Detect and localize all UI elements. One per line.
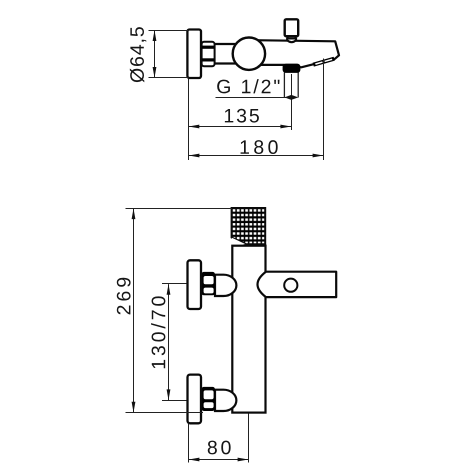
tick bottom	[149, 77, 189, 79]
extension line flange left	[188, 424, 190, 463]
arrow down	[153, 67, 157, 78]
dim line	[168, 284, 170, 400]
G 1/2 leader line	[216, 97, 287, 99]
inlet tube (side view)	[201, 44, 240, 64]
outlet hole	[284, 279, 297, 292]
tick bottom	[162, 400, 187, 402]
diverter knob	[285, 19, 299, 36]
spout body (side view)	[246, 40, 339, 67]
body (front view)	[232, 246, 265, 413]
nut (side view)	[202, 42, 215, 67]
label 180	[241, 140, 278, 154]
spout arm (front view)	[258, 272, 337, 297]
knurled handle (front view)	[232, 208, 266, 244]
black outlet ring	[283, 64, 301, 73]
bottom connection nut	[201, 387, 215, 411]
diverter knob neck	[287, 33, 296, 42]
top wall flange	[188, 260, 202, 309]
G 1/2 arrows diamond	[284, 95, 298, 100]
label 130/70	[151, 296, 165, 368]
extension line from spout tip	[323, 59, 325, 161]
dimension Ø64,5	[130, 27, 189, 82]
tick top	[162, 283, 187, 285]
bottom connection bulge	[215, 390, 236, 411]
dim line 80	[189, 458, 249, 462]
tick bottom	[126, 412, 204, 414]
dim line 180	[189, 154, 324, 158]
top connection bulge	[215, 275, 236, 296]
label Ø64,5	[130, 27, 146, 82]
label 269	[117, 278, 131, 315]
extension line outlet centre	[291, 74, 293, 130]
label 80	[208, 441, 231, 455]
handle knob circle (side view)	[233, 38, 265, 70]
dimension 130/70	[151, 284, 186, 401]
dim line	[133, 208, 135, 412]
arrow up	[153, 30, 157, 41]
top connection nut	[201, 272, 215, 295]
tick top	[126, 208, 233, 210]
label 135	[225, 109, 259, 123]
label G 1/2"	[217, 79, 279, 93]
extension line from wall face	[188, 79, 190, 161]
dimension 269	[117, 208, 232, 412]
aerator slot bar	[313, 57, 335, 67]
dim line 135	[189, 125, 292, 129]
dim line	[154, 31, 156, 78]
extension line body centre	[248, 414, 250, 463]
bottom wall flange	[188, 375, 202, 424]
tick top	[149, 30, 189, 32]
wall plate (side view)	[187, 30, 201, 79]
outlet tube below ring	[284, 73, 298, 98]
